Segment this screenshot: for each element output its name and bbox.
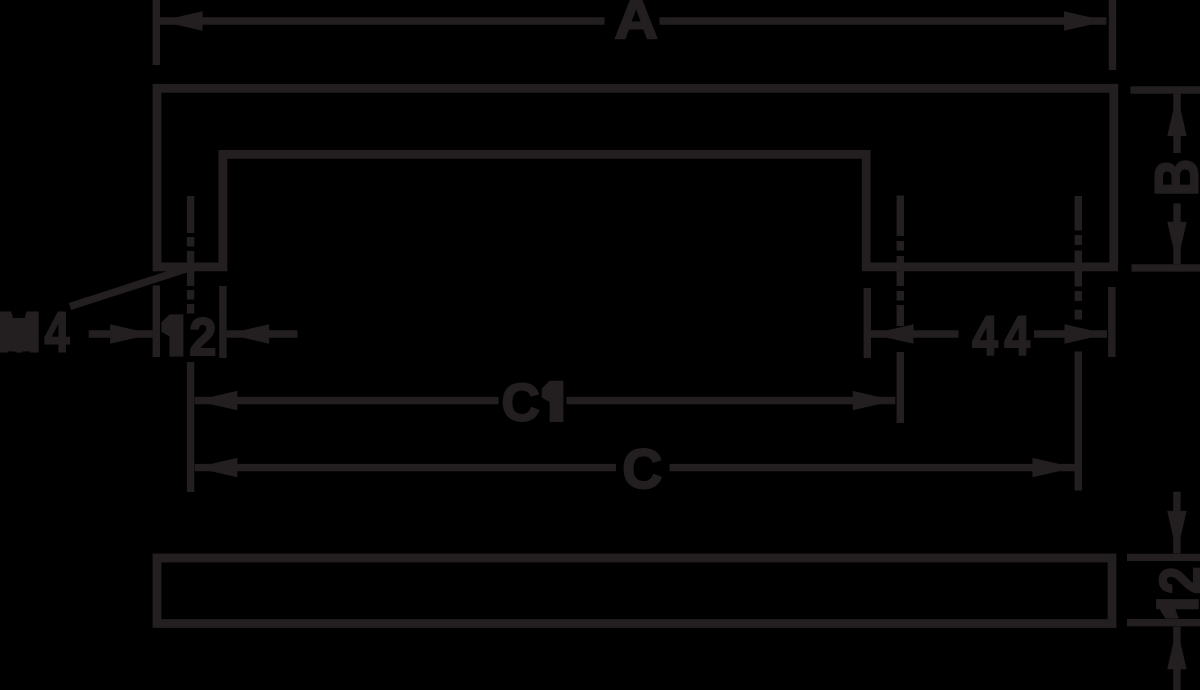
dimension A: dimension line right segment — [660, 17, 1107, 24]
dimension B: bottom arrow tail — [1173, 204, 1180, 265]
svg-text:C: C — [502, 373, 540, 432]
end hole axis centerline (dash-dot, x=1078.3) — [1075, 196, 1082, 320]
dimension C: dimension line right segment — [670, 464, 1076, 471]
svg-text:4: 4 — [972, 304, 998, 367]
svg-text:2: 2 — [1148, 567, 1200, 595]
M4 hole axis centerline (dash-dot, x=190.6) — [187, 196, 194, 314]
dimension B: bottom arrowhead (points down) — [1167, 222, 1186, 265]
dimension 12 right: bottom extension line — [1127, 619, 1200, 626]
right hole axis centerline (dash-dot, x=900.3) — [897, 196, 904, 327]
handle profile outline — [157, 88, 1114, 267]
dimension C: right arrowhead — [1033, 458, 1076, 477]
dimension C1: dimension line left segment — [195, 397, 499, 404]
label 12 right: digit 1 (rotated) — [1156, 599, 1199, 619]
dimension B: bottom extension line — [1132, 264, 1200, 271]
dimension A: dimension line left segment — [160, 17, 605, 24]
dimension 12 left: left arrow tail — [89, 330, 153, 337]
svg-text:B: B — [1143, 159, 1200, 197]
svg-text:4: 4 — [1004, 304, 1030, 367]
extension line below M4 axis for C1/C — [187, 362, 194, 492]
dimension C1: right arrowhead — [853, 391, 896, 410]
dimension 12 left: right arrow tail — [227, 330, 298, 337]
label C1: digit 1 — [542, 381, 564, 422]
svg-text:A: A — [614, 0, 658, 51]
extension line below right hole axis for C1 — [897, 352, 904, 423]
dimension 44: left arrowhead (points left) — [871, 324, 914, 343]
dimension B: top arrowhead (points up) — [1167, 94, 1186, 137]
dimension 12 left: left arrowhead (points right) — [110, 324, 153, 343]
dimension 44: right arrowhead (points right) — [1065, 324, 1108, 343]
label 12 left: digit 1 — [161, 314, 183, 356]
dimension 12 left: inner extension line — [219, 286, 226, 358]
dimension 12 right: bottom arrowhead (points up) — [1167, 627, 1186, 670]
label M4: letter M dip fill — [4, 318, 32, 351]
svg-text:C: C — [622, 438, 662, 500]
dimension 44: left extension line — [864, 288, 871, 358]
svg-text:2: 2 — [189, 308, 216, 367]
dimension 12 left: outer extension line — [153, 286, 160, 358]
dimension C: left arrowhead — [195, 458, 238, 477]
dimension 12 right: top arrow tail — [1173, 492, 1180, 554]
dimension C: dimension line left segment — [195, 464, 616, 471]
dimension 12 right: top arrowhead (points down) — [1167, 511, 1186, 554]
dimension B: top arrow tail — [1173, 94, 1180, 153]
dimension 12 left: right arrowhead (points left) — [227, 324, 270, 343]
dimension 12 right: top extension line — [1127, 554, 1200, 561]
dimension A: right extension line — [1109, 0, 1116, 70]
dimension 44: left arrow tail — [871, 330, 959, 337]
dimension B: top extension line — [1130, 86, 1200, 93]
extension line below end hole axis for C — [1075, 352, 1082, 491]
dimension C1: left arrowhead — [195, 391, 238, 410]
dimension A: left extension line — [153, 0, 160, 65]
dimension 44: right arrow tail — [1034, 330, 1107, 337]
dimension A: right arrowhead — [1064, 11, 1107, 30]
dimension 44: right extension line — [1108, 287, 1115, 357]
mounting panel cross-section rectangle — [157, 558, 1112, 624]
dimension A: left arrowhead — [160, 11, 203, 30]
dimension 12 right: bottom arrow tail — [1173, 627, 1180, 690]
dimension C1: dimension line right segment — [567, 397, 896, 404]
svg-text:4: 4 — [44, 301, 70, 364]
M4 leader line — [70, 268, 189, 307]
